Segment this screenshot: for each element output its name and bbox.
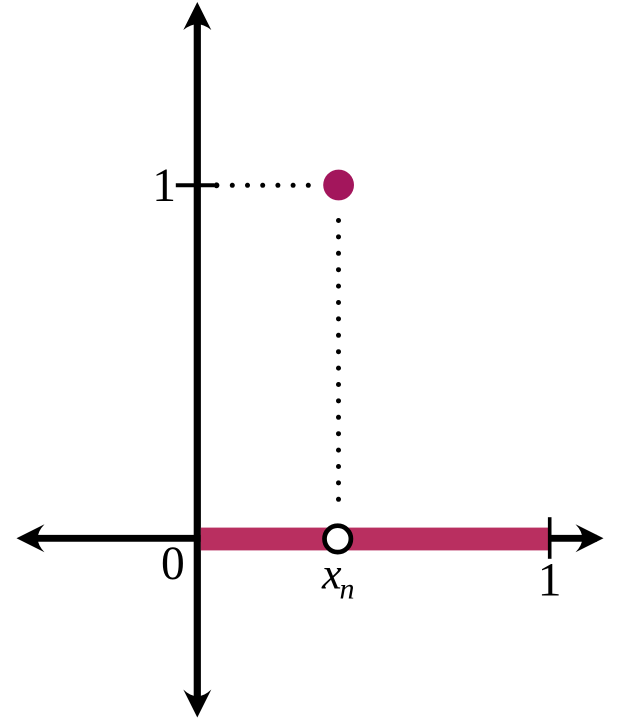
y-axis shaft	[194, 10, 201, 710]
x-axis arrowhead left	[17, 524, 45, 552]
svg-text:n: n	[340, 573, 355, 606]
filled point (x_n, 1)	[323, 170, 354, 201]
svg-text:0: 0	[161, 538, 185, 590]
vertical dotted line	[336, 218, 341, 502]
interval bar [0,1]	[201, 528, 548, 551]
x-axis shaft	[24, 535, 597, 542]
tick x=1	[548, 517, 552, 559]
first dot of horizontal dotted line	[214, 182, 220, 188]
x-axis arrowhead right	[576, 524, 604, 552]
y-axis arrowhead top	[183, 2, 211, 30]
tick y=1	[176, 183, 214, 187]
svg-text:1: 1	[538, 554, 562, 606]
open point x_n on axis	[325, 526, 351, 552]
horizontal dotted line	[230, 183, 311, 188]
y-axis arrowhead bottom	[183, 690, 211, 718]
svg-text:1: 1	[152, 160, 176, 212]
